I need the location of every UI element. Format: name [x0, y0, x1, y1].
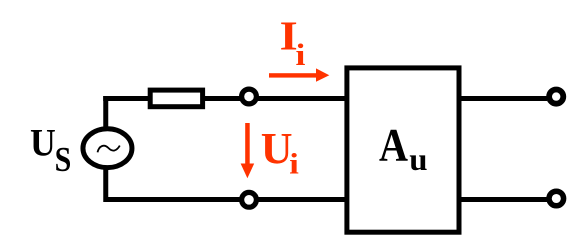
svg-text:i: i — [296, 38, 306, 72]
svg-text:U: U — [30, 122, 56, 165]
svg-text:S: S — [55, 141, 72, 180]
svg-text:i: i — [289, 147, 299, 180]
svg-text:U: U — [261, 124, 293, 173]
svg-text:A: A — [379, 120, 408, 172]
svg-text:u: u — [409, 142, 427, 177]
